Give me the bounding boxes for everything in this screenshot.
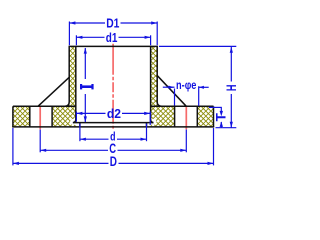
T extension line top — [209, 106, 222, 108]
socket fillet relief left — [70, 119, 76, 125]
n-phi-e dimension tail right — [199, 86, 209, 88]
d extension lines — [79, 124, 81, 142]
d2 dimension line — [76, 112, 105, 114]
weld taper diagonal right — [157, 75, 186, 106]
left bolt centerline — [39, 106, 41, 129]
small bore edge right — [146, 123, 148, 127]
hub top rim — [69, 45, 158, 47]
H arrows — [230, 47, 233, 53]
D arrows — [13, 162, 19, 165]
bolt hole left edge R — [174, 106, 176, 127]
D1 arrows — [69, 21, 75, 24]
small bore edge left — [79, 123, 81, 127]
svg-text:n-φe: n-φe — [176, 80, 196, 92]
C extension lines — [39, 130, 41, 153]
n-phi-e dimension tail left — [163, 86, 175, 88]
socket shoulder white ring right — [147, 123, 151, 127]
d1 extension lines — [75, 35, 77, 45]
d2 extension lines — [75, 112, 77, 122]
bolt hole right edge L — [51, 106, 53, 127]
svg-text:d1: d1 — [106, 30, 118, 45]
T arrows — [220, 111, 223, 117]
n-phi-e extension line right — [198, 86, 200, 106]
hub outer wall right with weld fillet — [157, 46, 162, 106]
hatch plate left inner section — [52, 106, 76, 127]
socket depth arrows — [84, 48, 87, 54]
main centerline — [112, 44, 114, 129]
hatch hub right wall — [151, 46, 158, 106]
socket shoulder line — [73, 122, 154, 124]
svg-text:d2: d2 — [107, 106, 121, 121]
D extension lines — [12, 128, 14, 165]
svg-text:H: H — [224, 85, 239, 92]
socket shoulder white ring left — [76, 123, 80, 127]
d1 arrows — [76, 36, 82, 39]
d arrows — [80, 138, 86, 141]
n-phi-e extension line left — [174, 89, 176, 106]
weld taper diagonal left — [38, 77, 70, 106]
svg-text:D1: D1 — [106, 16, 119, 31]
svg-text:T: T — [214, 112, 229, 121]
D1 extension lines — [68, 22, 70, 46]
socket fillet relief right — [150, 119, 156, 125]
n-phi-e arrows — [169, 86, 175, 89]
hatch plate right inner section — [151, 106, 175, 127]
C arrows — [40, 149, 46, 152]
bore wall left with socket fillet — [73, 46, 76, 122]
hatch plate right outer ring — [197, 106, 213, 127]
H extension line bottom shared with T — [216, 127, 237, 129]
d dimension line — [80, 138, 109, 140]
d2 arrows — [76, 112, 82, 115]
T dimension line — [220, 107, 222, 112]
hub outer wall left with weld fillet — [65, 46, 70, 106]
socket depth dimension line I — [84, 48, 86, 79]
hatch plate left outer ring — [13, 106, 30, 127]
D1 dimension line — [69, 22, 105, 24]
plate top line right — [151, 105, 214, 107]
bolt hole left edge L — [29, 106, 31, 127]
plate top line left — [13, 105, 76, 107]
plate bottom line — [12, 126, 214, 128]
bolt hole right edge R — [196, 106, 198, 127]
hatch hub left wall — [69, 46, 76, 106]
plate left edge — [12, 106, 14, 127]
D dimension line — [13, 162, 109, 164]
plate right edge — [213, 106, 215, 127]
bore wall right with socket fillet — [151, 46, 154, 122]
svg-text:D: D — [110, 154, 117, 169]
H dimension line — [230, 47, 232, 82]
H extension line top — [159, 45, 236, 47]
label I rotated — [80, 84, 94, 89]
right bolt centerline — [185, 106, 187, 129]
d1 dimension line — [76, 36, 104, 38]
C dimension line — [40, 149, 108, 151]
